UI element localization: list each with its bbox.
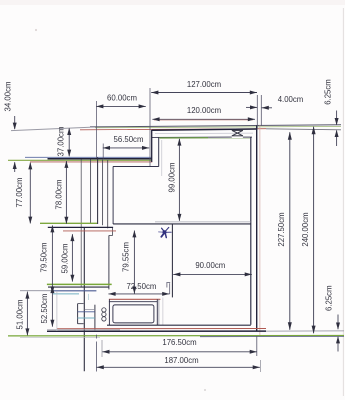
extension line x150 vertical xyxy=(149,88,151,166)
star symbol north marker xyxy=(159,227,172,237)
svg-text:34.00cm: 34.00cm xyxy=(3,82,12,112)
wall bottom outer dark xyxy=(47,330,266,332)
wall bottom gray left xyxy=(20,337,100,339)
wall right outer dark xyxy=(256,125,258,331)
window symbol bowtie top wall xyxy=(232,130,243,135)
fixture ladder rung blue xyxy=(78,311,95,313)
wall divider gray upper xyxy=(155,221,251,223)
dim 79.50cm and 52.50cm shared line with arrows xyxy=(51,225,53,326)
wall bottom-left faint vertical xyxy=(56,291,58,331)
fixture circles column xyxy=(102,308,106,321)
paper top tint xyxy=(0,0,345,5)
extension line top-left sloped xyxy=(11,127,90,130)
dim 90.00cm line and arrows xyxy=(173,273,252,275)
extension line x256 bottom xyxy=(256,336,258,356)
dim 72.50cm line and arrows xyxy=(108,293,169,295)
extension line x96 vertical xyxy=(96,101,98,158)
fixture counter dark top xyxy=(109,301,157,303)
wall room-top inner left of window xyxy=(152,136,232,138)
dim 6.25cm bottom-right arrows xyxy=(337,315,339,330)
extension line top-right gray second xyxy=(266,129,341,130)
wall step horizontal inner xyxy=(113,166,159,168)
wall interior vertical x172 xyxy=(171,224,173,298)
fixture counter right vertical 1 xyxy=(156,299,158,325)
wall bottom inner dark xyxy=(107,324,251,326)
svg-text:79.50cm: 79.50cm xyxy=(39,243,48,273)
dim 34.00cm line and arrows xyxy=(14,116,16,129)
dim 4.00cm arrows outside xyxy=(246,106,257,108)
speck bottom-center xyxy=(204,389,206,391)
svg-text:56.50cm: 56.50cm xyxy=(114,135,144,144)
svg-text:59.00cm: 59.00cm xyxy=(60,244,69,274)
dim 77.00cm line and arrows xyxy=(29,163,31,224)
wall corridor vertical x112 jog xyxy=(112,228,114,236)
dim 79.55cm line and arrows xyxy=(133,231,135,294)
wall right red ghost xyxy=(259,125,261,336)
wall wing-bottom dark xyxy=(48,226,113,228)
extension line x261 vertical xyxy=(260,95,262,126)
wall corridor vertical x84 long xyxy=(83,228,85,372)
wall corridor vertical x113 xyxy=(112,167,114,224)
wall right inner xyxy=(250,137,252,325)
extension line x169 vertical xyxy=(169,283,171,294)
dim 120.00cm line and arrows xyxy=(152,118,255,120)
svg-text:227.50cm: 227.50cm xyxy=(277,212,286,246)
wall bath green xyxy=(47,283,112,285)
wall wing-top dark line xyxy=(48,158,152,160)
dim 60.00cm line and arrows xyxy=(96,105,146,107)
speck top-left xyxy=(35,29,37,31)
wall wing-bottom green xyxy=(40,222,97,224)
extension line x257 vertical xyxy=(256,95,258,130)
dim 127.00cm line and arrows xyxy=(151,92,257,94)
dim 56.50cm line and arrows xyxy=(103,147,149,149)
dim 37.00cm line and arrows xyxy=(68,128,70,156)
fixture door-rect top xyxy=(78,303,84,305)
wall step gray ghost xyxy=(161,140,163,176)
wall step vertical outer xyxy=(151,130,153,162)
svg-text:77.00cm: 77.00cm xyxy=(15,178,24,208)
fixture counter red top xyxy=(109,298,160,300)
fixture ladder rung top gray xyxy=(85,308,95,310)
fixture door-rect left vertical xyxy=(77,304,79,324)
svg-text:176.50cm: 176.50cm xyxy=(162,338,196,347)
wall corridor jog horizontal xyxy=(109,234,113,236)
wall room-top middle gray xyxy=(155,132,253,135)
wall bath cyan vertical xyxy=(88,294,90,300)
wall bottom red ghost xyxy=(57,328,266,330)
wall room-top inner right of window xyxy=(243,136,252,138)
dim 227.50cm line and arrows xyxy=(289,132,291,330)
wall divider dark xyxy=(113,223,251,225)
wall wing-bottom red ghost xyxy=(63,230,116,232)
dim 6.25cm top-right arrows xyxy=(336,111,338,125)
svg-text:78.00cm: 78.00cm xyxy=(54,180,63,210)
wall bath blue xyxy=(52,290,96,292)
wall corridor vertical x90 xyxy=(90,160,92,224)
wall wing-top blue line xyxy=(25,156,152,158)
wall bath dark xyxy=(48,286,109,288)
svg-text:6.25cm: 6.25cm xyxy=(323,79,332,105)
svg-text:37.00cm: 37.00cm xyxy=(57,127,66,157)
svg-text:99.00cm: 99.00cm xyxy=(167,163,176,193)
wall step vertical inner xyxy=(158,137,160,167)
wall wing-top red ghost xyxy=(30,161,152,163)
wall wing-top green line xyxy=(8,159,152,161)
dim 99.00cm line and arrows xyxy=(178,139,180,221)
extension bracket near 72.50 xyxy=(166,282,170,284)
extension line x260 bottom xyxy=(259,360,261,372)
fixture counter right vertical 2 xyxy=(158,299,160,325)
fixture counter left vertical xyxy=(108,299,110,325)
extension line x102 bottom xyxy=(101,340,103,357)
extension line x96 bottom xyxy=(95,335,97,339)
svg-text:187.00cm: 187.00cm xyxy=(164,356,198,365)
wall corridor vertical x81 xyxy=(80,160,82,288)
svg-text:4.00cm: 4.00cm xyxy=(278,95,304,104)
wall corridor vertical x102 xyxy=(102,160,104,225)
wall bottom outer gray right xyxy=(266,330,344,332)
dim 187.00cm line and arrows xyxy=(97,366,260,368)
wall bath cyan xyxy=(53,293,79,295)
wall bottom green xyxy=(8,335,344,337)
fixture ladder rung cyan xyxy=(78,317,95,319)
svg-text:52.50cm: 52.50cm xyxy=(40,294,49,324)
dim 51.00cm line and arrows xyxy=(26,292,28,336)
svg-text:79.55cm: 79.55cm xyxy=(121,242,130,272)
wall bottom blue right xyxy=(200,336,344,338)
wall room-top inner green fringe xyxy=(160,138,250,140)
svg-text:60.00cm: 60.00cm xyxy=(107,93,137,102)
scan edge line right xyxy=(342,8,344,396)
extension line x103 vertical xyxy=(102,144,104,159)
extension line top long xyxy=(90,125,341,127)
dim 176.50cm line and arrows xyxy=(102,351,257,353)
svg-text:6.25cm: 6.25cm xyxy=(325,285,334,311)
svg-text:72.50cm: 72.50cm xyxy=(126,282,156,291)
wall corridor vertical x108 lower xyxy=(108,235,110,289)
wall corridor vertical x107 xyxy=(107,160,109,228)
extension line y290 horizontal left xyxy=(20,290,52,292)
wall corridor vertical x97 xyxy=(97,157,99,224)
extension line top green fringe xyxy=(95,126,341,127)
svg-text:120.00cm: 120.00cm xyxy=(187,106,221,115)
fixture counter right vertical 3 xyxy=(162,298,164,326)
dim 240.00cm line and arrows xyxy=(313,127,315,334)
fixture counter inner rect xyxy=(113,305,154,323)
fixture ladder right vertical xyxy=(94,305,96,331)
dim 59.00cm line and arrows xyxy=(71,234,73,281)
wall room-top outer dark xyxy=(152,129,257,130)
svg-text:90.00cm: 90.00cm xyxy=(195,261,225,270)
extension line top red ghost xyxy=(80,129,266,130)
svg-text:51.00cm: 51.00cm xyxy=(15,300,24,330)
svg-text:240.00cm: 240.00cm xyxy=(301,212,310,246)
svg-text:127.00cm: 127.00cm xyxy=(187,80,221,89)
fixture door-rect bottom xyxy=(78,323,84,325)
wall bottom gray short xyxy=(47,329,120,331)
dim 78.00cm line and arrows xyxy=(65,161,67,224)
